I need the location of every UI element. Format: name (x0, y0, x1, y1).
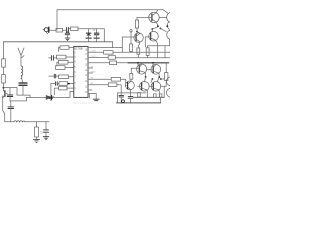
resistor R13 (104, 51, 113, 55)
wire emitter down (3, 98, 5, 122)
svg-text:2: 2 (74, 52, 76, 54)
node dot above Q4 (151, 28, 153, 30)
node dot R18 bottom (136, 31, 138, 33)
wire Q7 base feed (131, 68, 139, 73)
wire to diode (27, 96, 47, 98)
wire drop to rail at x104 (103, 29, 105, 42)
wire IC bottom pin (88, 93, 96, 99)
wire left rail vertical (3, 42, 5, 88)
resistor R11 (IC left col 6) (51, 82, 74, 86)
wire bracket x122.3 (121, 37, 123, 52)
svg-text:11: 11 (85, 86, 88, 88)
svg-text:14: 14 (85, 70, 88, 72)
ground left column (48, 97, 54, 100)
resistor R12 (IC left col 7) (54, 86, 74, 95)
wire R1 to C1 (63, 29, 66, 31)
capacitor C6 (8, 101, 14, 122)
resistor R16 (111, 78, 120, 82)
svg-text:4: 4 (74, 62, 76, 64)
svg-text:C9 0.1 R14 47k: C9 0.1 R14 47k (73, 101, 93, 105)
svg-text:5: 5 (74, 67, 76, 69)
resistor R2 (71, 27, 79, 31)
svg-text:10: 10 (85, 92, 88, 94)
wire dot to Q5 base (160, 28, 166, 31)
antenna ANT1 (18, 48, 24, 58)
wire drop x=112.6 to pin wire (112, 42, 114, 48)
ground IC bottom (93, 99, 99, 101)
wire lower link y=100.9 (10, 97, 27, 101)
wire d4 to right column (161, 78, 164, 80)
wire Q2 to Q3 link (159, 16, 166, 18)
resistor R8 (IC left col 3) (57, 60, 74, 66)
resistor R21 (vertical) (130, 73, 133, 79)
wire Q3 emitter diagonal (167, 27, 169, 31)
resistor R20 (vertical) (130, 44, 133, 52)
capacitor C11 (series to bottom bus) (119, 95, 124, 103)
wire bottom return line (117, 102, 161, 104)
wire IC right pin y84.7 (88, 84, 108, 86)
node dot rail 2 (152, 62, 154, 64)
wire diode to IC pin (52, 91, 73, 97)
wire main horizontal rail y=41.8 (4, 41, 113, 43)
svg-text:15: 15 (85, 65, 88, 67)
wire signal run y=95.1 (17, 95, 30, 97)
wire R21 to Q9 top (130, 79, 133, 81)
node dot Q2 emitter (157, 25, 159, 27)
wire IC right pin y79.3 (88, 78, 111, 80)
svg-text:18: 18 (85, 49, 88, 51)
wire IC right pin y62.8 (88, 62, 110, 64)
wire C1 to R2 (69, 28, 71, 30)
svg-text:3: 3 (74, 57, 76, 59)
node dot d3 (158, 76, 160, 78)
capacitor C1 (series) (67, 27, 69, 33)
capacitor C9 (left col small) (49, 74, 59, 78)
resistor R9 (IC left col 4) (56, 66, 74, 70)
wire Q11 emitter right (160, 86, 166, 97)
wire bottom right riser (160, 97, 162, 103)
capacitor C5 (7, 88, 13, 101)
ground under R5 (33, 139, 39, 142)
wire dot to Q6 collector (137, 32, 140, 34)
wire d3 to Q11 collector (157, 77, 159, 82)
resistor R24 (emitter small) (154, 94, 157, 97)
capacitor C12 (series to bottom bus) (128, 93, 133, 103)
transistor Q11 (output) (149, 82, 160, 98)
wire antenna down (20, 57, 22, 66)
node dot rail 1 (137, 62, 139, 64)
inductor L1 (antenna coil) (21, 66, 23, 78)
capacitor C10 (left col series) (56, 82, 58, 86)
transistor Q3 (top right, clipped) (163, 10, 177, 26)
svg-text:6: 6 (74, 72, 76, 74)
svg-text:1k: 1k (40, 131, 44, 135)
open terminal circle bottom (122, 100, 125, 103)
diode D1 (46, 95, 51, 99)
wire IC right pin y52.3 (88, 51, 104, 53)
transistor Q2 (top right) (149, 10, 159, 26)
bus A top cluster (148, 45, 170, 47)
transistor Q4 (second row) (145, 31, 158, 45)
trimmer capacitor CT1 (19, 83, 27, 85)
wire d1 to Q10 collector (144, 77, 145, 82)
wire dot into Q4 (151, 29, 153, 31)
IC stub pins right (88, 68, 93, 90)
resistor R7 (IC left col 2) (57, 55, 74, 59)
wire node A drop to signal wire (16, 88, 18, 96)
wire R14 to bus (115, 57, 170, 59)
transistor Q5 (second row, clipped) (167, 30, 177, 46)
node B junction dot (68, 83, 70, 85)
wire R13 to bus (113, 51, 170, 53)
svg-text:8: 8 (74, 83, 76, 85)
wire top supply rail (57, 9, 163, 11)
wire Q5 base run (122, 36, 136, 38)
svg-text:17: 17 (85, 54, 88, 56)
resistor R23 (emitter small) (138, 93, 141, 97)
node dot d4 (160, 78, 162, 80)
wire trimmer down to signal wire (22, 86, 24, 95)
wire bottom run (5, 121, 49, 123)
transistor Q10 (output) (138, 82, 150, 93)
wire R18 to Q2 base (137, 16, 152, 18)
node A junction dot (3, 87, 5, 89)
transistor Q8 (lower cluster) (151, 63, 161, 77)
svg-text:16: 16 (85, 59, 88, 61)
svg-text:S1T6B: S1T6B (74, 46, 82, 50)
node dot Q3 emitter (166, 25, 168, 27)
svg-text:7: 7 (74, 77, 76, 79)
svg-text:13: 13 (85, 75, 88, 77)
capacitor C4 with ground under chain (65, 31, 70, 38)
wire mic to R1 (50, 29, 56, 31)
emitter tick 1 (157, 46, 159, 58)
wire R16 to Q10 base (121, 79, 127, 85)
resistor R4 (left rail lower) (2, 75, 6, 83)
wire node A horizontal (4, 87, 18, 89)
wire R2 output run (78, 28, 104, 30)
resistor R17 (108, 83, 117, 87)
emitter tick Q10 (146, 93, 148, 97)
resistor R10 (IC left col 5) (59, 75, 74, 79)
capacitor C3 (to rail) (93, 29, 99, 42)
wire bus left drop (117, 93, 119, 103)
resistor R19 (vertical) (146, 46, 149, 58)
inductor L2 (bottom coil) (14, 121, 25, 122)
wire top rail left drop (56, 10, 58, 30)
node dot d1 (145, 76, 147, 78)
node dot above Q5 (160, 28, 162, 30)
capacitor C7 (to ground) (44, 122, 49, 137)
bus upper lower-cluster (118, 92, 146, 94)
transistor Q12 (right, clipped upper) (167, 77, 176, 86)
svg-text:9: 9 (74, 88, 76, 90)
wire IC right pin y57.5 (88, 57, 108, 59)
capacitor C2 (to rail, polarized) (86, 29, 91, 42)
wire IC right pin y47.5 (88, 47, 122, 49)
wire R20 to bus (130, 50, 132, 53)
wire Q8 base feed (147, 69, 153, 71)
wire d2 stub (151, 79, 152, 82)
ground under C4 (65, 38, 70, 41)
resistor R5 (to ground) (35, 122, 39, 139)
svg-text:12: 12 (85, 81, 88, 83)
resistor R1 (56, 28, 63, 32)
node dot d2 (152, 78, 154, 80)
transistor Q1 bottom-left oscillator (2, 89, 7, 98)
emitter tick 2 (164, 46, 166, 58)
wire Q2 emitter diagonal (153, 27, 158, 29)
wire rail lower cluster (117, 62, 128, 64)
wire left col ground drop (50, 84, 52, 97)
resistor R18 (vertical, top) (135, 17, 138, 31)
wire coil to trimmer (22, 78, 23, 82)
resistor R25 (vertical under Q6) (137, 48, 140, 58)
microphone MIC1 (43, 27, 49, 33)
transistor Q13 (right, clipped lower) (167, 88, 176, 97)
capacitor C8 (left col) (49, 56, 57, 61)
wire R17 long drop (117, 85, 121, 96)
resistor R26 (emitter small right) (159, 94, 162, 97)
resistor R15 (110, 61, 117, 65)
resistor R3 (left rail upper) (2, 59, 6, 67)
op-amp IC U1 body (74, 46, 88, 97)
transistor Q9 (output left small) (125, 81, 134, 93)
resistor R14 (108, 56, 115, 60)
ground under C7 (43, 137, 49, 140)
transistor Q6 (driver) (134, 33, 143, 48)
resistor R6 (IC left col 1) (58, 46, 73, 52)
bus lower lower-cluster (133, 96, 164, 98)
open terminal circle (130, 30, 132, 32)
resistor R22 (right column vertical) (165, 63, 168, 87)
wire terminal to R20 (130, 32, 132, 44)
transistor Q7 (lower cluster) (137, 63, 147, 77)
wire Q4 base bracket (144, 37, 146, 47)
